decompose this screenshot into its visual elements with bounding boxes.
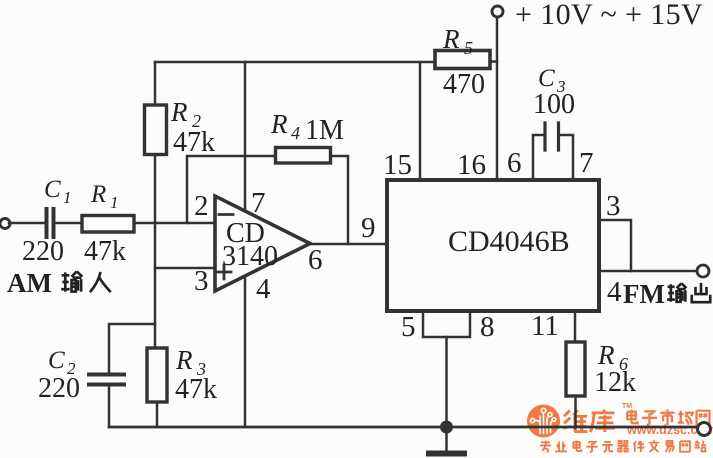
svg-text:CD4046B: CD4046B — [448, 225, 570, 258]
IC pin 5 — [401, 311, 416, 343]
label FM output — [623, 279, 710, 309]
IC pin 8 — [480, 311, 495, 343]
wire IC pin 11 to R6 — [574, 311, 577, 342]
IC label CD4046B — [448, 225, 570, 258]
label C1 — [44, 176, 72, 207]
svg-text:TM: TM — [622, 403, 632, 410]
svg-text:R: R — [442, 24, 460, 54]
svg-text:470: 470 — [443, 69, 485, 100]
IC pin 4 — [607, 276, 622, 308]
wire C2 to bottom rail — [108, 386, 111, 427]
wire node to op-amp pin 3 — [155, 267, 216, 270]
svg-text:5: 5 — [464, 38, 473, 58]
wire IC pin 6 to C3 — [533, 135, 544, 180]
IC pin 6 — [507, 147, 522, 179]
wire IC pin 15 to top rail — [419, 62, 422, 180]
svg-text:4: 4 — [291, 123, 300, 143]
resistor R4 — [276, 148, 331, 164]
svg-text:3140: 3140 — [222, 241, 278, 272]
value 47k (R3) — [175, 374, 217, 405]
wire op-amp pin 7 to top rail — [244, 62, 247, 211]
op-amp pin 6 — [308, 244, 323, 276]
power supply terminal — [492, 6, 503, 17]
IC pin 16 — [457, 149, 486, 181]
resistor R2 — [145, 105, 167, 155]
watermark slogan 专业电子元器件交易网站 — [540, 440, 706, 452]
wire pins 5/8 to ground — [445, 337, 448, 427]
resistor R3 — [147, 348, 167, 402]
svg-text:47k: 47k — [175, 374, 217, 405]
svg-text:R: R — [170, 97, 188, 127]
top rail wire — [155, 61, 435, 64]
op-amp pin 3 — [194, 265, 209, 297]
label R3 — [175, 345, 206, 379]
svg-text:220: 220 — [38, 373, 80, 404]
capacitor C2 — [89, 375, 124, 385]
svg-text:1: 1 — [110, 193, 119, 212]
watermark 电子市场网 — [627, 409, 709, 425]
svg-text:FM: FM — [623, 279, 665, 309]
label AM input — [7, 268, 111, 298]
IC pin 11 — [531, 310, 559, 342]
value 470 (R5) — [443, 69, 485, 100]
svg-text:C: C — [48, 347, 65, 374]
label R5 — [442, 24, 473, 58]
resistor R5 — [435, 51, 490, 69]
label +10V ~ +15V — [515, 0, 703, 31]
wire C3 to IC pin 7 — [560, 135, 574, 180]
watermark www.dzsc.com — [626, 423, 713, 437]
svg-text:C: C — [44, 176, 61, 203]
input terminal — [0, 219, 10, 229]
label C3 — [538, 65, 566, 96]
wire IC pin 4 to FM output — [599, 270, 698, 273]
svg-text:R: R — [90, 181, 106, 208]
wire IC pin 3 — [599, 220, 631, 271]
wire op-amp pin 4 to bottom rail — [244, 276, 247, 427]
svg-text:3: 3 — [194, 265, 209, 297]
value 47k (R2) — [173, 127, 215, 158]
label R4 — [270, 109, 300, 143]
svg-text:9: 9 — [361, 212, 376, 244]
feedback wire to R4 — [187, 156, 276, 223]
wire C1 to R1 — [55, 222, 82, 225]
IC U2 CD4046B — [387, 180, 599, 311]
svg-text:100: 100 — [533, 89, 575, 120]
svg-text:R: R — [175, 345, 193, 375]
svg-text:5: 5 — [401, 311, 416, 343]
wire R6 to bottom rail — [574, 396, 577, 428]
value 100 (C3) — [533, 89, 575, 120]
op-amp pin 7 — [251, 187, 266, 219]
value 220 (C2) — [38, 373, 80, 404]
svg-text:4: 4 — [607, 276, 622, 308]
bottom right terminal — [698, 423, 711, 436]
wire rail to R2 — [154, 62, 157, 105]
svg-text:8: 8 — [480, 311, 495, 343]
svg-text:+ 10V ~ + 15V: + 10V ~ + 15V — [515, 0, 703, 31]
svg-text:47k: 47k — [173, 127, 215, 158]
wire op-amp output to IC pin 9 — [310, 243, 387, 246]
capacitor C1 — [47, 209, 54, 237]
op-amp U1 CD3140 — [215, 196, 310, 291]
watermark TM — [622, 403, 632, 410]
wire input to C1 — [9, 222, 44, 225]
svg-text:2: 2 — [194, 190, 209, 222]
wire R5 to power line — [490, 60, 497, 63]
resistor R6 — [566, 342, 585, 396]
svg-text:12k: 12k — [594, 367, 636, 398]
node vertical wire — [154, 223, 157, 348]
svg-text:7: 7 — [579, 147, 594, 179]
svg-text:6: 6 — [507, 147, 522, 179]
ground — [429, 427, 464, 454]
IC pin 3 — [606, 190, 621, 222]
FM output terminal — [697, 265, 709, 277]
svg-text:220: 220 — [22, 236, 64, 267]
IC pin 15 — [383, 149, 412, 181]
power vertical wire to IC pin 16 — [496, 17, 499, 180]
watermark 维库 — [563, 409, 615, 432]
op-amp pin 4 — [256, 273, 271, 305]
value 12k (R6) — [594, 367, 636, 398]
label R2 — [170, 97, 201, 131]
IC pin 7 — [579, 147, 594, 179]
svg-text:1: 1 — [63, 188, 72, 207]
resistor R1 — [82, 216, 134, 233]
bottom rail wire — [109, 426, 698, 429]
value 1M (R4) — [305, 115, 344, 146]
svg-text:11: 11 — [531, 310, 559, 342]
wire R4 to output node — [331, 156, 349, 244]
svg-text:C: C — [538, 65, 555, 92]
junction dot on bottom rail — [440, 421, 453, 434]
value 47k (R1) — [84, 236, 126, 267]
wire R3 to bottom rail — [156, 402, 159, 427]
svg-text:6: 6 — [308, 244, 323, 276]
svg-text:7: 7 — [251, 187, 266, 219]
svg-text:47k: 47k — [84, 236, 126, 267]
value 220 (C1) — [22, 236, 64, 267]
wire R1 to op-amp pin 2 — [134, 222, 216, 225]
label C2 — [48, 347, 76, 378]
label R1 — [90, 181, 119, 212]
svg-text:16: 16 — [457, 149, 486, 181]
svg-text:3: 3 — [606, 190, 621, 222]
wire node to C2 — [109, 324, 155, 373]
wire R2 to input node — [154, 155, 157, 224]
svg-text:R: R — [270, 109, 288, 139]
svg-text:15: 15 — [383, 149, 412, 181]
label R6 — [597, 340, 628, 374]
op-amp label CD 3140 — [222, 218, 278, 272]
svg-text:R: R — [597, 340, 615, 370]
capacitor C3 — [545, 123, 559, 150]
svg-text:AM: AM — [7, 268, 52, 298]
watermark logo circle — [527, 405, 560, 438]
svg-text:1M: 1M — [305, 115, 344, 146]
op-amp minus sign — [219, 213, 233, 216]
svg-text:4: 4 — [256, 273, 271, 305]
op-amp plus sign — [217, 265, 231, 279]
wire IC pin 5 to pin 8 — [423, 311, 470, 337]
op-amp pin 2 — [194, 190, 209, 222]
IC pin 9 — [361, 212, 376, 244]
